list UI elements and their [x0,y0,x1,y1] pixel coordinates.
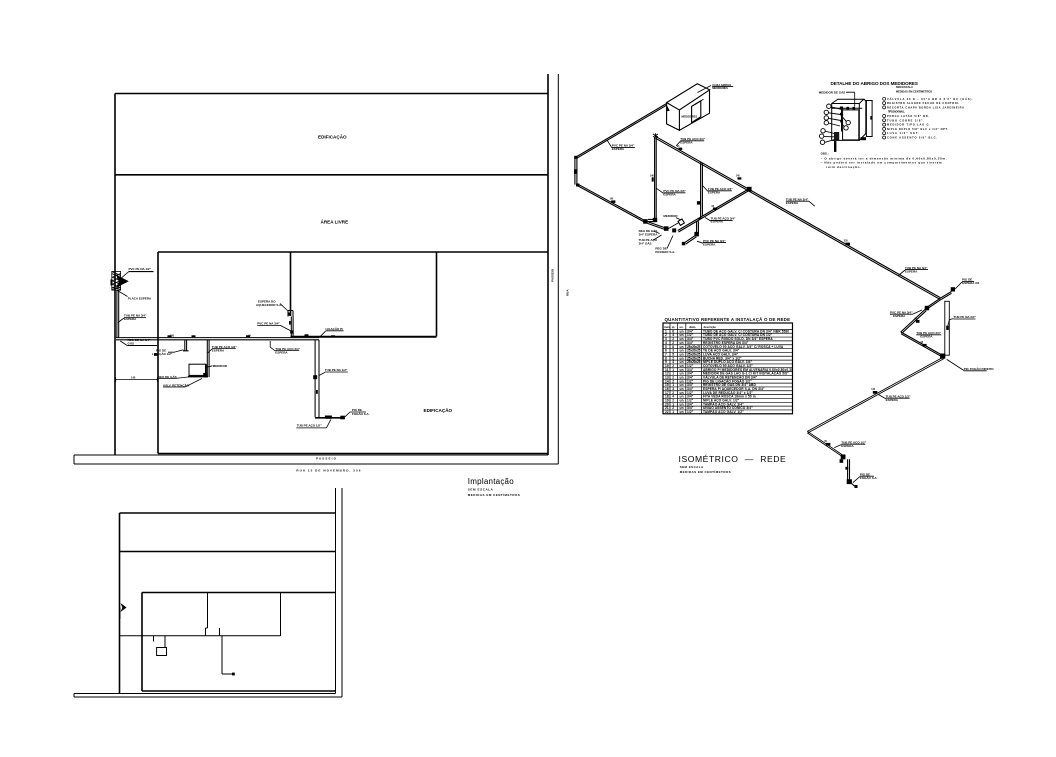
svg-text:MEDIDOR: MEDIDOR [213,364,228,368]
svg-text:TUBO COBRE 3/8".: TUBO COBRE 3/8". [887,118,924,122]
svg-text:NIPLE DUPLO 5/8" BLC x 1/2" NP: NIPLE DUPLO 5/8" BLC x 1/2" NPT. [887,127,948,131]
svg-text:1: 1 [672,410,674,414]
svg-text:GÁS: GÁS [128,341,135,346]
svg-text:SEM ESCALA: SEM ESCALA [680,465,704,469]
svg-text:3/4" ESPERA: 3/4" ESPERA [639,232,659,236]
svg-text:1/2": 1/2" [687,410,694,414]
svg-text:QUANTITATIVO REFERENTE A IN: QUANTITATIVO REFERENTE A INSTALAÇÃ O DE … [665,317,791,322]
svg-text:MEDIDOR TIPO LAO G.: MEDIDOR TIPO LAO G. [887,123,930,127]
svg-text:TAMPÃO AÇO GALV. 1/2": TAMPÃO AÇO GALV. 1/2" [703,409,744,414]
svg-text:RUA 15 DE NOVEMBRO, 556: RUA 15 DE NOVEMBRO, 556 [296,468,360,472]
svg-text:RECORTA CHAPA BORDA LISA JARDI: RECORTA CHAPA BORDA LISA JARDINEIRA [887,105,964,109]
svg-text:ruim destinação.: ruim destinação. [826,165,861,169]
svg-text:CONE ASSENTO 5/8" BLC.: CONE ASSENTO 5/8" BLC. [887,136,937,140]
svg-text:MEDIDORES: MEDIDORES [682,115,698,119]
svg-text:150: 150 [170,334,175,337]
svg-text:EDIFICAÇÃO: EDIFICAÇÃO [424,407,453,413]
svg-text:FOGÃO S.A.: FOGÃO S.A. [352,411,370,416]
svg-text:LIGAÇÃO P/: LIGAÇÃO P/ [326,326,344,331]
svg-text:EDIFICAÇÃO: EDIFICAÇÃO [318,134,347,140]
svg-text:SEM ESCALA: SEM ESCALA [896,85,913,89]
svg-text:diam.: diam. [689,325,696,329]
svg-text:LIGAÇÃO 1/2": LIGAÇÃO 1/2" [152,351,173,356]
svg-text:item: item [664,325,670,329]
svg-text:PIG FOGÃO DIREITO: PIG FOGÃO DIREITO [964,366,995,371]
svg-text:qt.: qt. [672,325,676,329]
svg-text:descrição: descrição [704,325,717,329]
svg-text:SEM ESCALA: SEM ESCALA [468,488,494,492]
svg-text:3/4" GÁS: 3/4" GÁS [639,240,652,245]
svg-text:140: 140 [131,376,136,380]
svg-text:LUVA 1/2" SGT.: LUVA 1/2" SGT. [887,131,919,135]
svg-text:PASSEIO S.A.: PASSEIO S.A. [655,250,675,254]
svg-text:MEDIDOR DE GÁS: MEDIDOR DE GÁS [819,89,846,94]
svg-text:ÁREA LIVRE: ÁREA LIVRE [321,219,349,225]
svg-text:PLACA ESPERA: PLACA ESPERA [128,297,152,301]
svg-text:PVC PE NA 1/2": PVC PE NA 1/2" [129,267,152,271]
svg-text:REGISTRO ALEGRE FECHO DE CONTR: REGISTRO ALEGRE FECHO DE CONTROL [887,101,959,105]
svg-text:PASSEIO: PASSEIO [551,268,555,282]
svg-text:TIPO JACK WALL.: TIPO JACK WALL. [888,110,905,114]
svg-text:22: 22 [665,410,669,414]
svg-text:AQUECEDOR S.A.: AQUECEDOR S.A. [256,303,282,307]
svg-text:PASSEIO: PASSEIO [316,456,337,460]
svg-text:un: un [680,410,684,414]
svg-text:ESPERA: ESPERA [124,317,137,321]
svg-text:MEDIDAS EM CENTÍMETROS: MEDIDAS EM CENTÍMETROS [680,469,731,474]
svg-text:MEDIDAS EM CENTÍMETROS: MEDIDAS EM CENTÍMETROS [468,492,520,497]
svg-text:OBS.:: OBS.: [821,152,829,156]
svg-text:FOGÃO S.A.: FOGÃO S.A. [860,475,878,480]
svg-text:TUB PE AÇO 1/2": TUB PE AÇO 1/2" [297,424,322,428]
svg-text:Implantação: Implantação [468,477,515,486]
svg-text:ISOMÉTRICO — REDE: ISOMÉTRICO — REDE [679,454,787,464]
svg-text:RUA: RUA [566,289,570,296]
